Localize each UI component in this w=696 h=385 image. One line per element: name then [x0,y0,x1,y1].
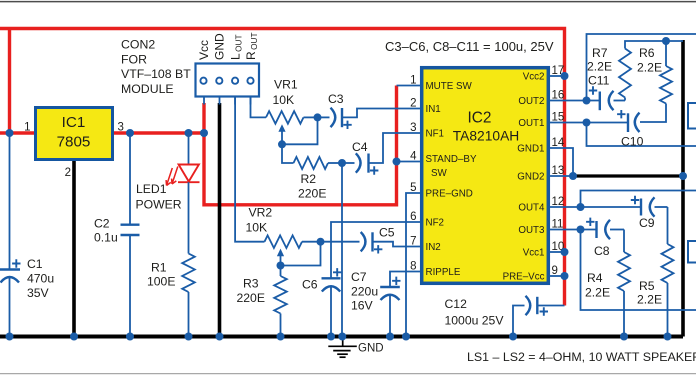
wire C3 to IN1 pin2 [342,109,420,118]
svg-text:10K: 10K [273,93,295,107]
svg-text:GND: GND [212,33,226,60]
wire into IC1 pin 1 [0,131,35,134]
svg-text:6: 6 [410,211,416,223]
VR1 wiper arrow [278,124,285,132]
svg-text:C6: C6 [302,278,318,292]
amplifier IC2 TA8210AH [422,68,549,284]
svg-text:C2: C2 [94,217,110,231]
wire pin10 Vcc1 [550,251,565,253]
node OUT2 [583,97,591,105]
svg-text:R5: R5 [639,279,655,293]
capacitor C4 [342,162,355,164]
wire CON2 LOUT to VR2 [235,97,264,242]
svg-text:IC1: IC1 [62,114,86,131]
node +12V / C1 [6,129,14,137]
bottom frame line [0,373,696,375]
wire C5 to IN2 pin7 [373,242,421,247]
svg-text:Vcc1: Vcc1 [523,248,545,259]
capacitor C12 1000u 25V [539,305,565,307]
node +5V / C2 [126,129,134,137]
wire IC1 pin2 ground [72,161,76,337]
svg-text:Vcc: Vcc [197,40,211,60]
ground symbol [328,338,357,357]
node OUT3 [577,226,585,234]
svg-text:R4: R4 [587,271,603,285]
svg-text:RIPPLE: RIPPLE [426,267,461,278]
wire pin13 GND2 [550,175,573,177]
potentiometer VR2 10K [265,235,303,248]
node PRE-Vcc / +12V [561,272,569,280]
node R1 ground [185,333,193,341]
wire pin1 MUTE to red [397,85,421,87]
svg-text:LS1 – LS2 = 4–OHM, 10 WATT SPE: LS1 – LS2 = 4–OHM, 10 WATT SPEAKER [467,350,696,364]
node R2 / C4 [338,159,346,167]
svg-text:C5: C5 [379,226,395,240]
svg-text:8: 8 [410,261,416,273]
resistor R4 2.2E [623,230,625,253]
wire R3 to ground [280,314,282,337]
capacitor C2 0.1u [129,133,131,225]
node NF network ground [338,333,346,341]
wire R4 to ground [623,291,625,337]
svg-text:SW: SW [431,168,448,179]
svg-text:1000u 25V: 1000u 25V [445,314,505,328]
svg-text:2.2E: 2.2E [587,60,612,74]
svg-text:GND1: GND1 [517,144,544,155]
wire VR1 wiper down [281,131,283,144]
wire CON2 ROUT to VR1 [251,97,267,117]
wire pin9 PRE-Vcc [550,275,565,277]
regulator IC1 7805 [36,108,113,160]
svg-text:C3: C3 [328,92,344,106]
wire IC1 pin3 +5V rail [113,131,206,134]
node GND1/GND2 [569,172,577,180]
svg-text:2.2E: 2.2E [637,61,662,75]
svg-text:NF1: NF1 [426,129,445,140]
wire OUT2 up to LS1 top [587,34,696,101]
wire RIPPLE pin8 to C7 [390,272,420,288]
svg-text:PRE–Vcc: PRE–Vcc [503,272,545,283]
node PRE-GND ground [402,333,410,341]
capacitor C8 [595,221,597,238]
wire pin12 OUT4 [550,206,640,208]
wire R2 to C4 node [328,162,342,164]
node CON2 GND ground [216,333,224,341]
speaker LS2 partial [688,241,696,263]
svg-text:C1: C1 [27,257,43,271]
VR2 wiper arrow [277,249,284,257]
wire wiper junction to R3 [280,266,282,277]
wire pin4 STAND-BY to red [397,161,421,163]
capacitor C7 220u 16V [380,286,400,288]
svg-text:GND2: GND2 [517,172,544,183]
capacitor C9 [640,199,642,216]
svg-text:C10: C10 [621,135,644,149]
capacitor C10 [627,113,629,132]
node +5V / CON2 Vcc [200,129,208,137]
resistor R2 220E [294,157,329,169]
capacitor C6 [322,277,341,279]
wire red vertical to MUTE/STAND-BY [395,86,398,207]
svg-text:C7: C7 [351,270,367,284]
wire wiper junction down to R2 [282,144,294,163]
svg-text:7805: 7805 [57,134,91,151]
svg-text:3: 3 [410,122,416,134]
svg-text:STAND–BY: STAND–BY [426,154,477,165]
svg-text:220E: 220E [298,187,326,201]
node VR2 / C5 [317,238,325,246]
svg-text:2.2E: 2.2E [637,293,662,307]
wire CON2 Vcc vertical [202,103,205,207]
node VR1 wiper junction [278,140,286,148]
svg-text:C3–C6, C8–C11 = 100u, 25V: C3–C6, C8–C11 = 100u, 25V [385,39,554,54]
svg-text:FOR: FOR [121,52,147,66]
capacitor C5 [321,241,360,243]
svg-text:R7: R7 [592,46,608,60]
svg-text:IN1: IN1 [426,104,441,115]
svg-text:GND: GND [358,343,384,355]
svg-text:R1: R1 [151,261,167,275]
node Vcc2 / +12V [561,72,569,80]
wire R1 to ground [188,292,190,337]
wire R5 to ground [667,283,669,337]
wire OUT1 down to LS1 bottom [587,123,696,147]
svg-text:R6: R6 [639,46,655,60]
LED LED1 [166,165,199,186]
wire pin14 GND1 [550,148,573,176]
wire pin16 OUT2 [550,100,599,102]
svg-text:LED1: LED1 [136,182,167,196]
svg-text:3: 3 [118,122,124,134]
wire VR2 wiper down [280,256,282,266]
wire CON2 GND down [218,103,222,337]
wire pin15 OUT1 [550,122,628,124]
svg-text:TA8210AH: TA8210AH [453,129,519,144]
capacitor C3 [318,116,330,118]
svg-text:R3: R3 [243,276,259,290]
svg-text:POWER: POWER [136,197,182,211]
svg-text:OUT2: OUT2 [518,96,544,107]
node C2 ground [126,333,134,341]
wire OUT4 up to LS2 top [581,191,696,208]
CON2 pin stubs [203,97,205,105]
svg-text:2: 2 [410,98,416,110]
speaker LS1 partial [688,103,696,129]
svg-text:OUT3: OUT3 [518,225,545,236]
resistor R5 2.2E [667,207,669,244]
svg-text:C8: C8 [594,244,610,258]
wire PRE-GND pin5 to ground [406,193,420,337]
svg-text:IC2: IC2 [468,110,492,127]
wire VR2 right lead [302,241,321,243]
svg-text:220u: 220u [351,284,378,298]
wire R2-C4 node to ground [341,163,343,337]
svg-text:MUTE SW: MUTE SW [426,81,473,92]
wire pin17 Vcc2 [550,75,565,77]
wire +5V to LED1 [188,133,190,165]
node R3 ground [277,333,285,341]
wire NF2 pin6 to C6 [331,222,420,278]
connector CON2 [196,64,260,97]
node OUT1 [583,119,591,127]
svg-text:Vcc2: Vcc2 [523,72,545,83]
node Vcc1 / +12V [561,248,569,256]
svg-text:C4: C4 [352,140,368,154]
wire C4 to NF1 pin3 [369,133,421,163]
node +5V / LED1 [185,129,193,137]
svg-text:MODULE: MODULE [121,82,174,96]
wire wiper to VR2 right end [281,242,321,266]
potentiometer VR1 10K [266,111,304,124]
wire VR1 right lead [304,116,318,118]
svg-text:16V: 16V [351,299,374,313]
svg-text:IN2: IN2 [426,242,441,253]
node OUT4 [577,203,585,211]
node R4 ground [620,333,628,341]
ground bus [0,335,683,339]
svg-text:C9: C9 [639,216,655,230]
svg-text:470u: 470u [27,272,54,286]
resistor R7 2.2E [624,98,626,101]
svg-text:10K: 10K [246,220,268,234]
svg-text:NF2: NF2 [426,218,445,229]
wire +12V top rail [0,29,565,306]
wire pin11 OUT3 [550,229,596,231]
wire R7 top to ground vertical [625,41,683,49]
wire GND2 pin13 to right [573,174,683,177]
node VR2 wiper junction [277,262,285,270]
svg-text:35V: 35V [27,286,50,300]
svg-text:1: 1 [24,122,30,134]
svg-text:R2: R2 [301,172,317,186]
svg-text:C11: C11 [588,74,610,88]
svg-text:2: 2 [65,167,71,179]
wire OUT3 down to LS2 bottom [581,230,696,311]
svg-text:VTF–108 BT: VTF–108 BT [121,67,191,81]
svg-text:2.2E: 2.2E [585,286,610,300]
top frame line [0,1,696,3]
svg-text:7: 7 [410,236,416,248]
svg-text:VR1: VR1 [274,77,298,91]
resistor R1 100E [182,254,195,293]
wire wiper to VR1 right end [282,117,318,144]
capacitor C11 [599,92,601,111]
wire +12V feed to IC1 pin1 [8,29,11,134]
node C6 ground [327,333,335,341]
node STAND-BY / +5V [393,158,401,166]
svg-text:5: 5 [410,182,416,194]
resistor R6 2.2E [665,41,667,66]
capacitor C1 470u 35V [9,133,11,270]
svg-text:C12: C12 [445,297,468,311]
svg-text:PRE–GND: PRE–GND [426,189,473,200]
svg-text:VR2: VR2 [249,205,273,219]
node IC1 pin2 ground [70,333,78,341]
node C12 ground [509,333,517,341]
svg-text:0.1u: 0.1u [94,231,118,245]
node GND2 / right ground [679,172,687,180]
svg-text:OUT4: OUT4 [518,203,545,214]
wire R6 bottom to C10 [640,104,666,123]
node R5 ground [664,333,672,341]
node R6 top [662,37,670,45]
resistor R3 220E [274,276,287,314]
node VR1 / C3 [314,113,322,121]
svg-text:CON2: CON2 [121,38,155,52]
wire LED1 to R1 [188,182,190,253]
svg-text:220E: 220E [237,291,265,305]
svg-text:100E: 100E [147,275,175,289]
svg-text:OUT1: OUT1 [518,118,544,129]
node C1 ground [6,333,14,341]
node C7 ground [386,333,394,341]
wire +5V horizontal to IC2 [204,203,397,206]
wire right ground vertical [681,40,685,337]
